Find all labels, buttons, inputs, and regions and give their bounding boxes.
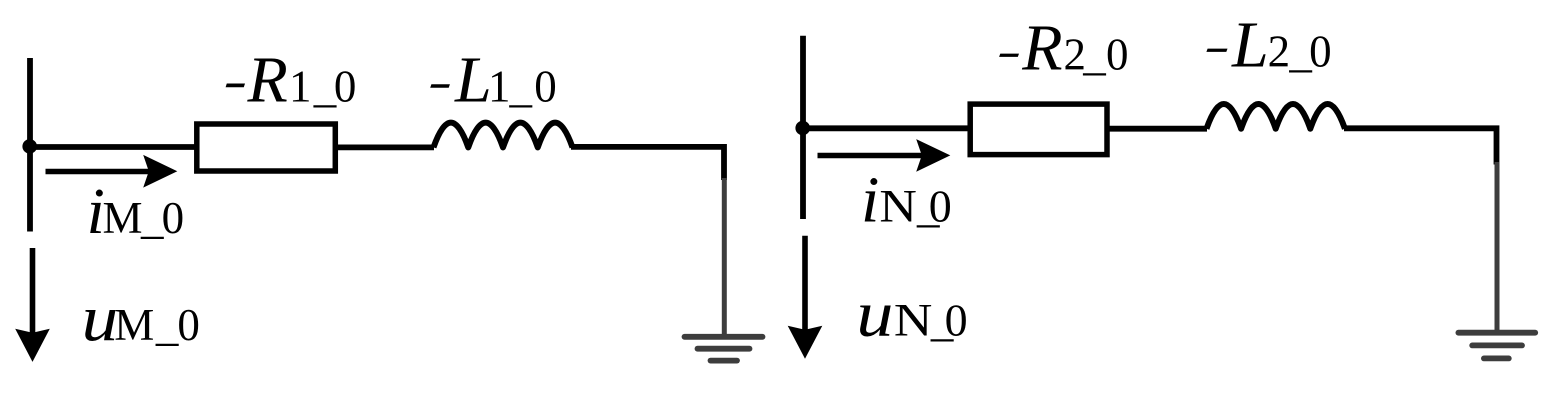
inductor L2_0 coil bbox=[1207, 104, 1345, 129]
label -R1_0 bbox=[226, 43, 357, 116]
inductor L1_0 coil bbox=[434, 123, 573, 148]
label i_M_0 bbox=[87, 175, 185, 248]
wire: gray drop to ground 2 bbox=[1495, 162, 1500, 330]
svg-text:R: R bbox=[1021, 11, 1062, 84]
svg-text:1_0: 1_0 bbox=[488, 61, 557, 111]
svg-text:1_0: 1_0 bbox=[289, 61, 356, 111]
wire: resistor R2_0 to inductor L2_0 bbox=[1107, 126, 1207, 132]
svg-text:L: L bbox=[1231, 8, 1269, 81]
svg-text:M_0: M_0 bbox=[114, 300, 200, 350]
current arrow i_N_0 shaft bbox=[818, 153, 923, 159]
wire: inductor L1_0 to right corner, down toward ground bbox=[571, 147, 724, 180]
svg-text:R: R bbox=[247, 43, 288, 116]
voltage arrow u_M_0 shaft bbox=[30, 248, 36, 334]
node M (junction dot) bbox=[22, 139, 37, 154]
current arrow i_M_0 shaft bbox=[46, 169, 151, 175]
wire: gray drop to ground 1 bbox=[722, 178, 727, 334]
svg-text:u: u bbox=[856, 277, 893, 350]
voltage arrow u_N_0 head bbox=[788, 326, 823, 359]
wire: node M to resistor R1_0 bbox=[29, 144, 197, 150]
resistor R1_0 body bbox=[197, 124, 335, 171]
label -L2_0 bbox=[1206, 8, 1331, 81]
svg-text:u: u bbox=[82, 282, 119, 355]
svg-text:N: N bbox=[894, 295, 933, 346]
wire: node N to resistor R2_0 bbox=[802, 125, 970, 131]
wire: resistor R1_0 to inductor L1_0 bbox=[335, 144, 434, 150]
voltage arrow u_N_0 shaft bbox=[802, 236, 808, 331]
svg-text:0: 0 bbox=[929, 181, 952, 232]
wire: inductor L2_0 to right corner, down toward ground bbox=[1344, 128, 1497, 164]
label u_M_0 bbox=[82, 282, 200, 355]
current arrow i_M_0 head bbox=[143, 155, 177, 188]
wire: right circuit vertical bus at node N bbox=[800, 36, 806, 219]
resistor R2_0 body bbox=[970, 104, 1107, 155]
label i_N_0 bbox=[861, 164, 952, 237]
label u_N_0 bbox=[856, 277, 967, 350]
label -L1_0 bbox=[430, 43, 557, 116]
wire: left circuit vertical bus at node M bbox=[27, 58, 33, 232]
svg-text:i: i bbox=[861, 164, 879, 237]
svg-text:2_0: 2_0 bbox=[1064, 29, 1129, 79]
voltage arrow u_M_0 head bbox=[15, 329, 50, 362]
svg-text:2_0: 2_0 bbox=[1268, 26, 1332, 76]
current arrow i_N_0 head bbox=[916, 139, 950, 172]
svg-text:0: 0 bbox=[945, 294, 968, 345]
ground 1 symbol bbox=[685, 337, 763, 361]
label -R2_0 bbox=[999, 11, 1128, 84]
svg-text:M_0: M_0 bbox=[103, 193, 185, 243]
node N (junction dot) bbox=[795, 121, 810, 136]
svg-text:N: N bbox=[879, 182, 917, 233]
ground 2 symbol bbox=[1458, 333, 1535, 359]
svg-text:L: L bbox=[454, 43, 492, 116]
